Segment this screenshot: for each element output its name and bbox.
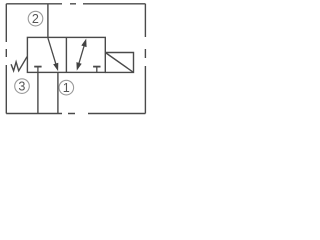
valve position divider	[65, 37, 67, 72]
label port 3 circle	[15, 79, 30, 94]
envelope left dashed border	[5, 4, 7, 114]
svg-text:1: 1	[63, 81, 70, 95]
svg-text:2: 2	[32, 12, 39, 26]
svg-text:3: 3	[18, 80, 25, 94]
port 1 wire	[57, 72, 59, 113]
label port 2 circle	[28, 11, 43, 26]
flow path double arrow position 2 (3 to 2)	[79, 46, 84, 63]
arrowhead position 2 bottom	[76, 62, 81, 71]
envelope right dashed border	[144, 4, 146, 114]
arrowhead position 1	[53, 63, 58, 71]
label port 1 circle	[59, 80, 74, 95]
spring	[11, 57, 27, 71]
arrowhead position 2 top	[81, 39, 86, 48]
blocked port 3 symbol	[34, 67, 41, 73]
envelope top dashed border	[6, 3, 145, 5]
port 3 wire	[37, 72, 39, 113]
flow path arrow position 1 (2 to 1)	[48, 38, 56, 65]
valve body outer box	[27, 37, 105, 72]
blocked port 1 symbol	[93, 67, 100, 73]
solenoid diagonal	[105, 53, 133, 73]
solenoid box	[105, 53, 133, 73]
envelope bottom dashed border	[6, 113, 145, 115]
port 2 wire	[47, 4, 49, 38]
